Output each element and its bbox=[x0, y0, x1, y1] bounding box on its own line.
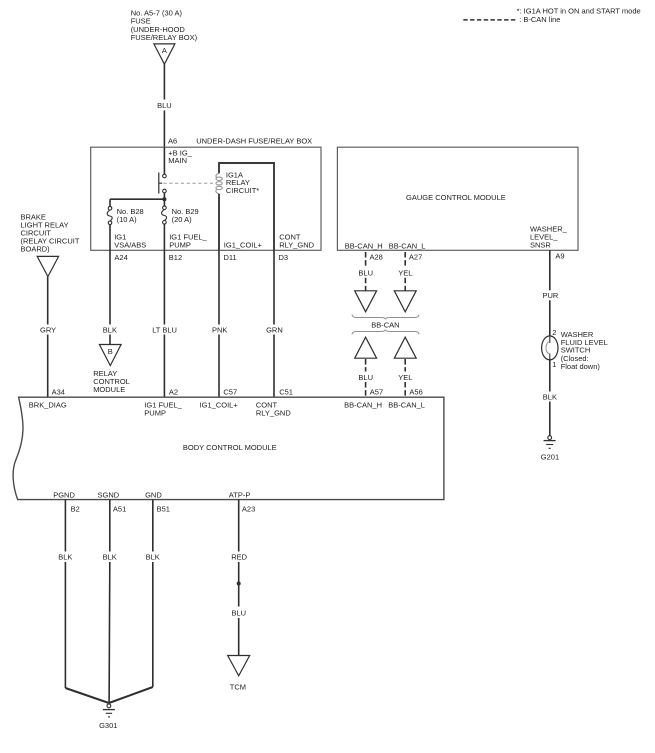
svg-text:A51: A51 bbox=[113, 504, 126, 513]
BB-CAN upper brace bbox=[352, 315, 419, 320]
net +B IG_MAIN label bbox=[168, 148, 192, 165]
relay switch contact circles bbox=[163, 174, 167, 178]
svg-text:GND: GND bbox=[145, 490, 162, 499]
svg-text:IG1_COIL+: IG1_COIL+ bbox=[224, 240, 263, 249]
svg-text:BODY CONTROL MODULE: BODY CONTROL MODULE bbox=[183, 443, 277, 452]
svg-text:BLU: BLU bbox=[157, 101, 172, 110]
svg-text:C57: C57 bbox=[223, 388, 237, 397]
svg-text:GRY: GRY bbox=[40, 326, 56, 335]
under-dash fuse/relay box bbox=[91, 147, 321, 250]
svg-text:G201: G201 bbox=[541, 453, 559, 462]
wire BLU from fuse A5-7 to A6 bbox=[157, 64, 172, 147]
fuse B28 bbox=[107, 199, 144, 224]
wire BLK B51 to G301 bbox=[109, 500, 160, 703]
junction dot bbox=[162, 197, 166, 201]
BB-CAN down arrow L bbox=[394, 291, 416, 312]
svg-text:GRN: GRN bbox=[266, 326, 283, 335]
svg-text:B51: B51 bbox=[157, 504, 170, 513]
svg-text:YEL: YEL bbox=[398, 373, 412, 382]
svg-text:A9: A9 bbox=[555, 252, 564, 261]
brake light relay connector triangle bbox=[37, 256, 58, 276]
svg-text:RLY_GND: RLY_GND bbox=[256, 408, 291, 417]
BB-CAN up arrow L bbox=[394, 337, 416, 358]
relay control module label bbox=[93, 369, 130, 394]
svg-text:BLU: BLU bbox=[232, 608, 247, 617]
gauge pin WASHER_LEVEL_SNSR label bbox=[530, 225, 568, 250]
legend B-CAN dashed line sample bbox=[463, 19, 517, 21]
wire BB-CAN_H dashed A28 to BB-CAN unit bbox=[358, 252, 373, 291]
wire BB-CAN_H dashed to A57 bbox=[358, 359, 373, 397]
ground G301 bbox=[99, 704, 117, 730]
wire branch to fuse B28 bbox=[110, 198, 164, 200]
fuse A5-7 label bbox=[131, 8, 198, 42]
relay actuation dashed link bbox=[164, 182, 215, 184]
svg-text:: B-CAN line: : B-CAN line bbox=[519, 15, 560, 24]
svg-text:SNSR: SNSR bbox=[530, 240, 551, 249]
wire relay output bbox=[163, 193, 165, 202]
brake light relay circuit label bbox=[21, 212, 80, 253]
wire PUR A9 to washer switch bbox=[543, 250, 559, 336]
wire PNK D11 to C57 bbox=[212, 250, 227, 397]
svg-text:PUR: PUR bbox=[543, 291, 559, 300]
svg-text:BLK: BLK bbox=[58, 552, 72, 561]
connector A triangle bbox=[154, 44, 175, 64]
svg-text:GAUGE CONTROL MODULE: GAUGE CONTROL MODULE bbox=[406, 193, 506, 202]
svg-text:BLK: BLK bbox=[543, 393, 557, 402]
svg-text:BB-CAN_H: BB-CAN_H bbox=[345, 241, 383, 250]
svg-text:A34: A34 bbox=[52, 388, 65, 397]
wire LT BLU B12 to A2 bbox=[152, 224, 177, 397]
svg-text:BLK: BLK bbox=[146, 552, 160, 561]
svg-text:D11: D11 bbox=[224, 253, 237, 262]
svg-text:BLU: BLU bbox=[358, 269, 373, 278]
wire BLK from fuse B28 to relay control module bbox=[103, 225, 117, 345]
wire BLK A51 to G301 bbox=[103, 500, 117, 703]
svg-text:SGND: SGND bbox=[98, 490, 120, 499]
svg-text:Float down): Float down) bbox=[561, 362, 601, 371]
gauge control module box bbox=[337, 147, 578, 250]
wire GRN D3 to C51 bbox=[266, 250, 283, 397]
wire BB-CAN_L dashed to A56 bbox=[398, 359, 412, 397]
svg-text:BRK_DIAG: BRK_DIAG bbox=[29, 400, 67, 409]
svg-text:TCM: TCM bbox=[230, 682, 246, 691]
svg-text:BB-CAN: BB-CAN bbox=[371, 321, 399, 330]
wire BLK B2 to G301 bbox=[58, 500, 109, 703]
svg-text:A6: A6 bbox=[168, 137, 177, 146]
BCM pin IG1 FUEL_PUMP label bbox=[144, 400, 182, 417]
relay movable contact bar bbox=[159, 173, 162, 194]
svg-text:A57: A57 bbox=[370, 388, 383, 397]
svg-text:C51: C51 bbox=[279, 388, 293, 397]
svg-text:A27: A27 bbox=[409, 252, 422, 261]
svg-text:CIRCUIT*: CIRCUIT* bbox=[226, 186, 259, 195]
svg-text:RLY_GND: RLY_GND bbox=[279, 240, 314, 249]
svg-text:B2: B2 bbox=[71, 504, 80, 513]
svg-text:B: B bbox=[108, 347, 113, 356]
svg-text:VSA/ABS: VSA/ABS bbox=[114, 240, 146, 249]
svg-text:RED: RED bbox=[231, 552, 247, 561]
ground G201 bbox=[541, 436, 559, 462]
wire RED/BLU A23 to TCM bbox=[231, 500, 247, 656]
wire BLK washer switch to G201 bbox=[543, 360, 557, 436]
svg-text:B12: B12 bbox=[169, 253, 182, 262]
svg-text:BB-CAN_L: BB-CAN_L bbox=[388, 400, 425, 409]
svg-text:MAIN: MAIN bbox=[168, 156, 187, 165]
svg-text:A2: A2 bbox=[169, 388, 178, 397]
svg-text:(10 A): (10 A) bbox=[117, 215, 138, 224]
wire BB-CAN_L dashed A27 to BB-CAN unit bbox=[398, 252, 412, 291]
svg-text:BB-CAN_H: BB-CAN_H bbox=[344, 400, 382, 409]
washer fluid level switch label bbox=[561, 330, 608, 371]
svg-text:BLK: BLK bbox=[103, 552, 117, 561]
svg-text:IG1_COIL+: IG1_COIL+ bbox=[200, 400, 239, 409]
body control module box bbox=[13, 397, 444, 499]
BB-CAN down arrow H bbox=[355, 291, 377, 312]
IG1A relay coil bbox=[216, 173, 222, 193]
svg-text:A24: A24 bbox=[114, 253, 127, 262]
svg-text:PUMP: PUMP bbox=[169, 240, 191, 249]
svg-text:PGND: PGND bbox=[53, 490, 75, 499]
svg-text:2: 2 bbox=[552, 328, 556, 337]
svg-text:(20 A): (20 A) bbox=[172, 215, 193, 224]
IG1A relay circuit label bbox=[226, 170, 259, 194]
svg-text:BLK: BLK bbox=[103, 326, 117, 335]
net CONT RLY_GND label bbox=[279, 233, 314, 250]
svg-text:BB-CAN_L: BB-CAN_L bbox=[389, 241, 426, 250]
splice junction dot bbox=[237, 582, 241, 586]
svg-text:PNK: PNK bbox=[212, 326, 227, 335]
BCM pin CONT RLY_GND label bbox=[256, 400, 291, 417]
svg-text:A: A bbox=[162, 46, 167, 55]
svg-text:LT BLU: LT BLU bbox=[152, 326, 177, 335]
wire GRY to A34 bbox=[40, 277, 56, 398]
IG1A relay circuit box bbox=[219, 163, 274, 250]
svg-text:A56: A56 bbox=[409, 388, 422, 397]
connector B triangle relay control module bbox=[99, 345, 121, 366]
svg-text:FUSE/RELAY BOX): FUSE/RELAY BOX) bbox=[131, 33, 198, 42]
svg-text:BOARD): BOARD) bbox=[21, 244, 51, 253]
relay contact wire from A6 bbox=[163, 147, 165, 174]
svg-text:YEL: YEL bbox=[398, 269, 412, 278]
svg-text:A28: A28 bbox=[370, 252, 383, 261]
svg-text:BLU: BLU bbox=[358, 373, 373, 382]
BB-CAN lower brace bbox=[352, 330, 419, 335]
svg-text:G301: G301 bbox=[99, 721, 117, 730]
washer fluid level switch bbox=[542, 328, 558, 369]
net IG1 FUEL_PUMP label bbox=[169, 233, 207, 250]
svg-text:UNDER-DASH FUSE/RELAY BOX: UNDER-DASH FUSE/RELAY BOX bbox=[196, 137, 312, 146]
svg-text:1: 1 bbox=[552, 360, 556, 369]
net IG1 VSA/ABS label bbox=[114, 233, 146, 250]
svg-text:MODULE: MODULE bbox=[93, 385, 125, 394]
TCM connector triangle bbox=[228, 656, 250, 676]
svg-text:A23: A23 bbox=[242, 504, 255, 513]
BB-CAN up arrow H bbox=[355, 337, 377, 358]
fuse B29 bbox=[162, 202, 199, 225]
svg-text:D3: D3 bbox=[279, 253, 289, 262]
svg-text:ATP-P: ATP-P bbox=[229, 490, 251, 499]
svg-text:PUMP: PUMP bbox=[144, 408, 166, 417]
